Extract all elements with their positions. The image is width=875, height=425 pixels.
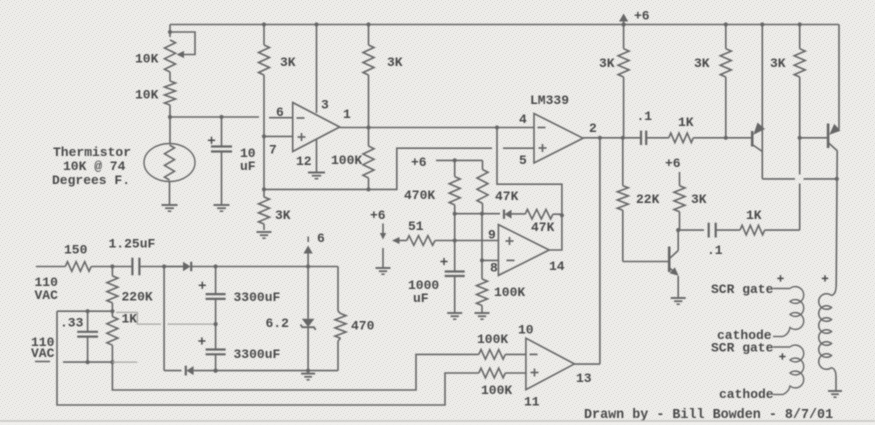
- svg-text:+6: +6: [634, 9, 650, 24]
- svg-text:100K: 100K: [494, 285, 525, 300]
- wire 1K to Q1 base: [693, 137, 752, 139]
- resistor R9 47K horizontal: [525, 209, 553, 219]
- resistor R16 22K: [622, 138, 624, 186]
- wire R2 to sensor node: [169, 105, 171, 117]
- wire +6 top rail: [170, 24, 839, 26]
- comparator U2c: [526, 338, 575, 390]
- ground R11: [475, 312, 490, 314]
- ground transformer: [828, 390, 842, 392]
- arrow +6 drop: [382, 224, 384, 235]
- wire +6 raw rail: [164, 266, 183, 268]
- arrow +6 supply output: [307, 253, 309, 267]
- svg-text:100K: 100K: [477, 332, 508, 347]
- svg-text:cathode: cathode: [719, 387, 774, 402]
- ground Q3: [671, 297, 686, 299]
- label + C7: [199, 284, 206, 286]
- lead cathode 2: [773, 394, 783, 396]
- op-amp U1a: [293, 103, 340, 152]
- zener D4 6.2V: [307, 267, 309, 319]
- svg-text:Degrees F.: Degrees F.: [52, 173, 130, 188]
- ground thermistor: [162, 204, 178, 206]
- svg-text:LM339: LM339: [530, 93, 569, 108]
- svg-text:VAC: VAC: [31, 346, 55, 361]
- svg-text:SCR gate: SCR gate: [711, 340, 774, 355]
- wire caps midpoint link: [116, 312, 161, 324]
- svg-text:14: 14: [549, 259, 565, 274]
- svg-text:1K: 1K: [746, 208, 762, 223]
- resistor R20 100K pin11: [479, 368, 506, 378]
- svg-text:10K @ 74: 10K @ 74: [63, 159, 126, 174]
- wire pin4 node to 47K feedback node: [497, 128, 562, 216]
- wire 150 to 220K node: [91, 266, 132, 268]
- svg-text:3K: 3K: [694, 56, 710, 71]
- label + C8: [198, 340, 205, 342]
- svg-text:100K: 100K: [331, 153, 362, 168]
- transistor Q1: [751, 131, 754, 147]
- wire 51 to pin 9: [435, 240, 498, 242]
- resistor R21 150: [65, 262, 91, 272]
- svg-text:10: 10: [518, 323, 534, 338]
- plus SCR1: [777, 277, 783, 279]
- plus primary: [822, 277, 828, 279]
- svg-text:470K: 470K: [404, 188, 435, 203]
- svg-text:Thermistor: Thermistor: [53, 145, 131, 160]
- svg-text:100K: 100K: [481, 383, 512, 398]
- resistor R19 100K pin10: [479, 350, 506, 360]
- resistor R6 3K: [263, 189, 265, 197]
- diode D2: [185, 366, 187, 376]
- node rail-pot junction: [169, 25, 171, 38]
- transformer secondary T1b: [783, 345, 804, 394]
- svg-text:SCR gate: SCR gate: [711, 282, 774, 297]
- wire pot to R2: [169, 72, 171, 81]
- wire 22K to Q3 base: [623, 261, 669, 263]
- ground C2: [447, 312, 462, 314]
- resistor R5 100K: [368, 128, 370, 147]
- svg-text:7: 7: [269, 143, 277, 158]
- wire pin 12 to ground: [316, 140, 318, 173]
- wire bottom supply rail: [164, 370, 181, 372]
- wire sensor node to pin 6: [170, 116, 259, 118]
- svg-text:150: 150: [64, 243, 88, 258]
- resistor R7 470K: [454, 160, 456, 176]
- wire +6 to 470K and 47K tops: [436, 159, 483, 161]
- svg-text:3K: 3K: [770, 56, 786, 71]
- wiper arrow: [177, 51, 185, 58]
- label 6 supply: [307, 237, 309, 243]
- wire AC sense line 2: [57, 311, 479, 405]
- wire pin 6 stub: [269, 117, 293, 119]
- comparator U2b: [498, 225, 549, 276]
- transistor Q2: [827, 124, 830, 149]
- svg-text:uF: uF: [240, 159, 256, 174]
- capacitor C2 1000uF: [454, 214, 456, 272]
- resistor R17 3K: [679, 172, 681, 186]
- resistor R11 100K: [481, 260, 483, 279]
- supply arrow +6 on rail: [623, 20, 625, 25]
- wire node A: [57, 310, 112, 312]
- svg-text:220K: 220K: [122, 290, 153, 305]
- wire feedback node to LM339 pin 5: [264, 148, 492, 189]
- resistor R2 10K: [165, 81, 176, 105]
- svg-text:+6: +6: [411, 155, 427, 170]
- svg-text:47K: 47K: [495, 189, 519, 204]
- wire 1.25uF node drop: [163, 267, 165, 371]
- wire pin 3 to rail: [314, 22, 318, 26]
- wire U2a output drop to U2c output: [599, 138, 601, 364]
- resistor R15 1K: [669, 133, 694, 143]
- transistor Q3: [668, 247, 671, 273]
- wire Q2 base: [800, 137, 828, 139]
- terminal dash lower VAC: [35, 361, 50, 363]
- capacitor C1 10uF: [221, 117, 223, 147]
- wire Q2 base vertical: [799, 138, 801, 175]
- wire sensor node to thermistor: [169, 117, 171, 144]
- svg-text:+6: +6: [370, 208, 386, 223]
- svg-text:8: 8: [490, 261, 498, 276]
- capacitor C5 1.25uF: [131, 258, 133, 276]
- thermistor RT1: [144, 144, 195, 182]
- wire AC input upper: [36, 266, 65, 268]
- label + C2: [440, 261, 447, 263]
- svg-text:11: 11: [524, 395, 540, 410]
- capacitor C6 .33: [87, 311, 89, 332]
- lead primary bottom: [832, 368, 837, 377]
- svg-text:10K: 10K: [135, 88, 159, 103]
- resistor R12 3K pullup: [622, 22, 626, 26]
- transformer secondary T1a: [783, 287, 804, 337]
- lead SCR gate 2: [773, 346, 790, 348]
- wire C5 to diode node: [139, 266, 183, 268]
- svg-text:3K: 3K: [599, 56, 615, 71]
- potentiometer R1 10K: [165, 40, 176, 72]
- wire pin 8 drop: [481, 214, 483, 261]
- resistor R13 3K pullup: [724, 22, 728, 26]
- svg-text:51: 51: [408, 219, 424, 234]
- svg-text:3300uF: 3300uF: [234, 290, 281, 305]
- svg-text:22K: 22K: [636, 192, 660, 207]
- svg-text:.33: .33: [60, 316, 84, 331]
- svg-text:1: 1: [343, 107, 351, 122]
- wire U2c output: [574, 363, 600, 365]
- svg-text:10K: 10K: [135, 52, 159, 67]
- wire pin 7 stub: [264, 135, 293, 137]
- wire pin 8 stub: [482, 259, 498, 261]
- label + C1: [208, 139, 215, 141]
- diode D1: [183, 262, 191, 271]
- wire U2b output to feedback: [549, 215, 562, 250]
- wire hysteresis node: [455, 213, 500, 215]
- wire Q3 collector node: [678, 229, 704, 231]
- svg-text:.1: .1: [637, 109, 653, 124]
- svg-text:.1: .1: [707, 243, 723, 258]
- svg-text:1.25uF: 1.25uF: [109, 237, 156, 252]
- svg-text:VAC: VAC: [35, 288, 59, 303]
- comparator U2a LM339: [534, 114, 583, 164]
- svg-text:3: 3: [321, 98, 329, 113]
- wire Q1 collector to Q2 collector: [762, 178, 795, 180]
- capacitor C3 .1: [640, 131, 642, 145]
- svg-text:4: 4: [519, 112, 527, 127]
- ground pin 12: [308, 172, 325, 174]
- wire stub right of 1K: [112, 361, 137, 363]
- wire pot wiper loop: [170, 32, 195, 55]
- resistor R24 470: [337, 267, 339, 312]
- svg-text:uF: uF: [413, 291, 429, 306]
- ground R6: [257, 231, 272, 233]
- wire R3 down to feedback node: [263, 75, 265, 189]
- arrow wire into 51: [392, 237, 400, 244]
- svg-text:1K: 1K: [122, 312, 138, 327]
- svg-text:3K: 3K: [275, 208, 291, 223]
- wire Q2 collector down to transformer: [836, 151, 837, 287]
- lead SCR gate 1: [773, 288, 790, 290]
- ground below +6 arrow: [376, 267, 391, 269]
- svg-text:3K: 3K: [280, 55, 296, 70]
- resistor R23 1K: [111, 311, 113, 316]
- svg-text:6: 6: [317, 231, 325, 246]
- ground zener: [301, 373, 315, 375]
- capacitor C8 3300uF lower: [215, 324, 217, 349]
- transformer primary T1: [819, 294, 832, 370]
- resistor R10 51: [407, 236, 435, 246]
- svg-text:13: 13: [576, 371, 592, 386]
- resistor R3 3K: [262, 22, 266, 26]
- ground C1: [214, 204, 230, 206]
- plus SCR2: [779, 356, 785, 358]
- wire AC input lower: [63, 361, 112, 363]
- scan artifact line bottom: [0, 422, 875, 425]
- svg-text:2: 2: [589, 121, 597, 136]
- wire Q1 emitter from rail: [760, 22, 764, 26]
- svg-text:470: 470: [351, 319, 375, 334]
- lead cathode 1: [773, 336, 783, 338]
- svg-text:5: 5: [519, 153, 527, 168]
- svg-text:6.2: 6.2: [266, 316, 290, 331]
- lead primary top: [832, 287, 837, 296]
- svg-text:12: 12: [296, 154, 312, 169]
- resistor R4 3K: [366, 22, 370, 26]
- resistor R14 3K pullup: [798, 22, 802, 26]
- capacitor C4 .1: [708, 223, 710, 238]
- wire 1K to Q2 base vertical: [765, 229, 800, 231]
- svg-text:6: 6: [276, 105, 284, 120]
- wire rail right drop to Q2 emitter: [838, 25, 840, 130]
- resistor R18 1K: [740, 225, 765, 235]
- svg-text:47K: 47K: [531, 220, 555, 235]
- resistor R22 220K: [111, 267, 113, 276]
- diode D3: [503, 210, 505, 219]
- svg-text:1K: 1K: [678, 115, 694, 130]
- wire thermistor to ground: [169, 182, 171, 206]
- wire U1a output to LM339 pin 4: [340, 127, 534, 129]
- svg-text:3K: 3K: [691, 192, 707, 207]
- wire R4 to output node: [368, 75, 370, 128]
- resistor R8 47K vertical: [482, 160, 484, 169]
- svg-text:+6: +6: [665, 156, 681, 171]
- wire U2a output: [583, 137, 641, 139]
- svg-text:3K: 3K: [387, 55, 403, 70]
- svg-text:3300uF: 3300uF: [234, 347, 281, 362]
- wire stub to ground below +6 arrow: [382, 248, 384, 268]
- capacitor C7 3300uF upper: [215, 267, 217, 295]
- wire AC sense line 1: [112, 354, 478, 390]
